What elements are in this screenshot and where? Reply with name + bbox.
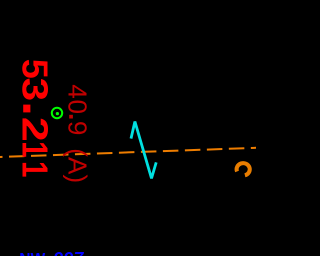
node D: cyan zigzag break symbol <box>131 122 156 179</box>
node B: dark red label 40.9 (A) (rotated 90deg) <box>63 84 93 183</box>
node C: green circle survey point marker <box>52 108 62 118</box>
node E: orange rotated letter C <box>237 163 250 175</box>
node A decimal point <box>23 105 30 113</box>
svg-text:1: 1 <box>15 161 55 177</box>
svg-text:4: 4 <box>63 84 93 98</box>
svg-text:5: 5 <box>14 59 55 79</box>
svg-text:A: A <box>63 157 93 175</box>
node B decimal point <box>69 115 73 119</box>
svg-text:NW: NW <box>19 251 45 256</box>
svg-text:(: ( <box>63 148 93 157</box>
wire: orange dashed alignment line <box>0 148 256 157</box>
svg-text:1: 1 <box>15 141 55 157</box>
svg-text:3: 3 <box>14 78 54 102</box>
node A: red elevation label 53.211 (rotated 90deg) <box>14 59 55 178</box>
svg-text:9: 9 <box>63 121 93 135</box>
svg-text:2: 2 <box>14 117 55 142</box>
svg-text:997: 997 <box>53 248 84 256</box>
svg-text:0: 0 <box>63 100 93 114</box>
node F: blue partially clipped label <box>19 248 84 256</box>
node C center dot <box>56 112 59 115</box>
svg-text:): ) <box>63 175 93 184</box>
